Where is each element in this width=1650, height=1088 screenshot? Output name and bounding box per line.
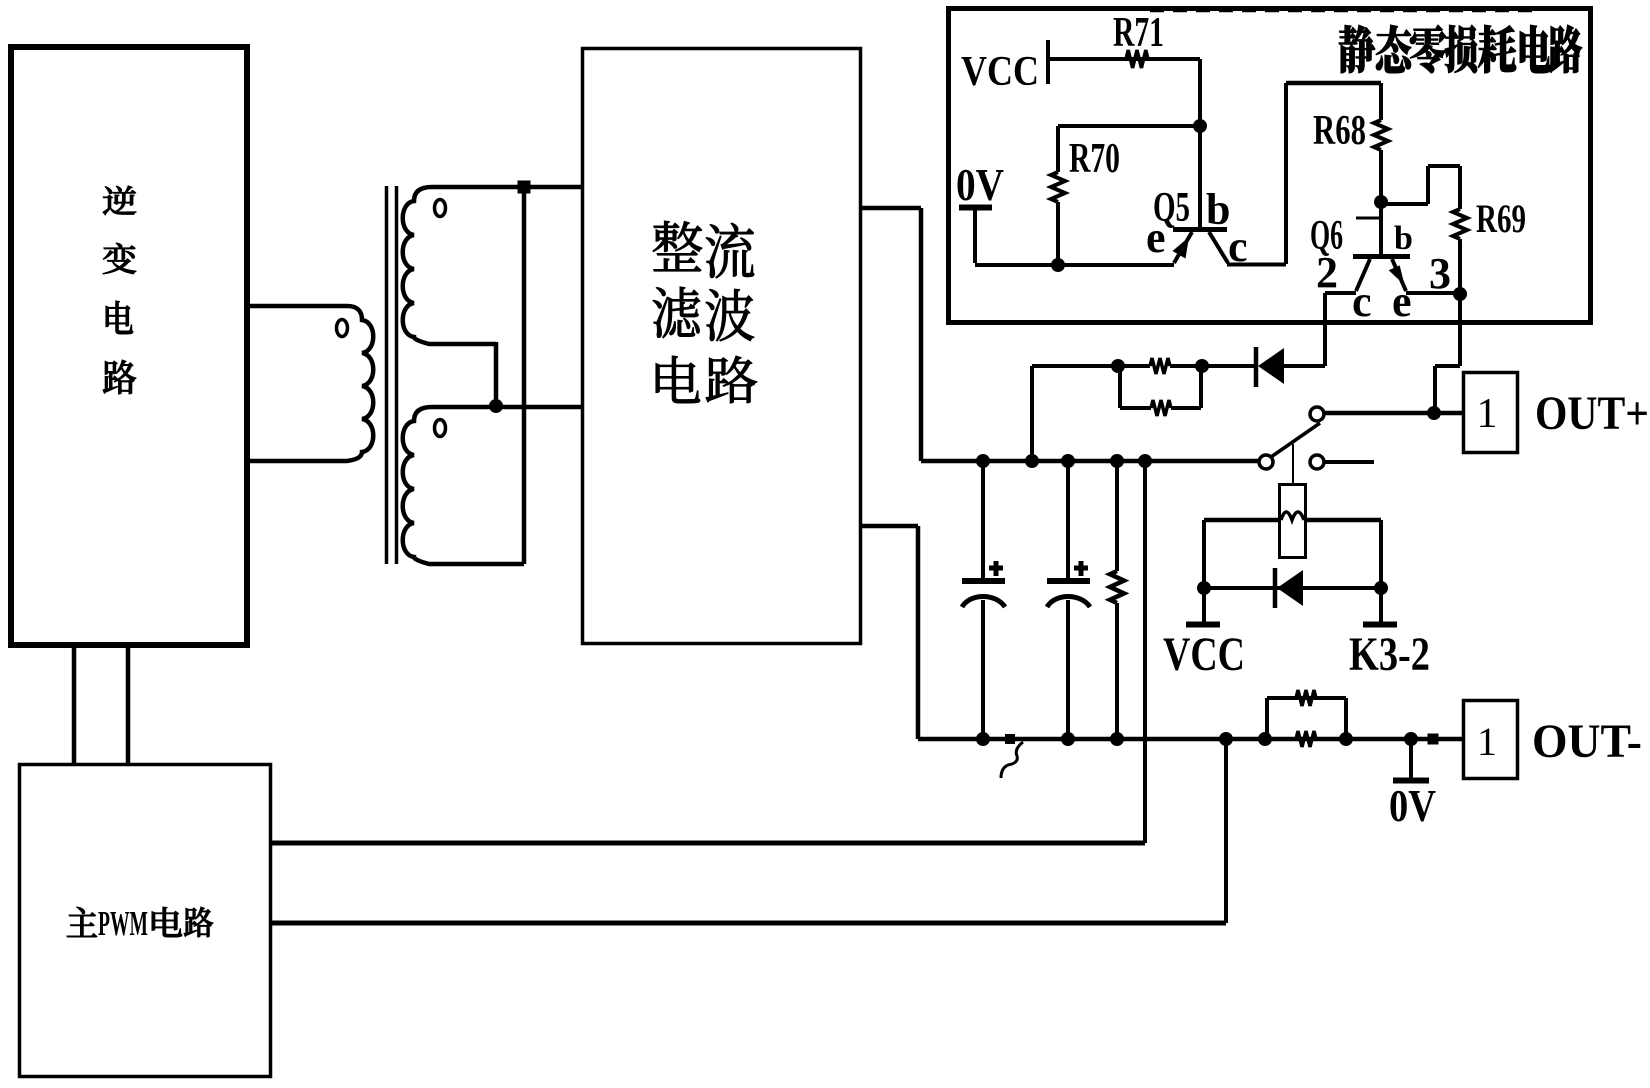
- wire: NC stub: [1325, 460, 1374, 464]
- label OUT+: [1535, 387, 1649, 440]
- relay switch: blade: [1271, 423, 1320, 457]
- svg-text:e: e: [1392, 277, 1412, 326]
- wire: PWM feedback line: [272, 841, 1145, 846]
- secondary bottom polarity dot: [435, 420, 446, 437]
- resistor R69: [1453, 166, 1526, 294]
- node: cap1 top: [976, 454, 990, 468]
- svg-text:3: 3: [1429, 249, 1451, 298]
- svg-text:b: b: [1394, 220, 1413, 257]
- wire: OUT+ rail: [921, 459, 1259, 464]
- svg-text:K3-2: K3-2: [1349, 628, 1430, 681]
- svg-text:1: 1: [1477, 719, 1497, 764]
- capacitor C1 (electrolytic): [962, 461, 1005, 739]
- svg-text:0V: 0V: [1389, 781, 1436, 831]
- resistor R71: [1113, 10, 1164, 68]
- transformer secondary winding (bottom): [403, 407, 581, 564]
- node: junction on secondary top lead: [518, 181, 531, 194]
- node: pin-3 node (emitter/R69): [1453, 287, 1467, 301]
- wire: coil right lead: [1307, 520, 1381, 624]
- label OUT-: [1532, 715, 1642, 768]
- wire: inverter to PWM drive 1: [72, 648, 77, 763]
- wire: base node jog to R69: [1381, 166, 1460, 204]
- transformer secondary winding (top): [403, 187, 581, 344]
- node: shunt R left: [1258, 732, 1272, 746]
- svg-text:1: 1: [1477, 391, 1498, 437]
- resistor (parallel pair, upper): [1118, 358, 1202, 374]
- wire: rectifier bottom output: [862, 526, 918, 739]
- terminal K3-2: [1349, 625, 1430, 682]
- wire: snubber branch horizontal: [1032, 366, 1118, 461]
- wire: OUT+ feed: [1325, 411, 1462, 416]
- node: clamp diode left: [1197, 581, 1211, 595]
- block: static zero-loss circuit box (静态零损耗电路): [949, 9, 1591, 323]
- transformer T1 core: [387, 186, 397, 564]
- primary polarity dot: [337, 320, 348, 337]
- clamp diode (cathode left): [1275, 568, 1303, 608]
- wire: voltage sense down to PWM feedback: [1143, 461, 1147, 843]
- svg-text:VCC: VCC: [961, 49, 1039, 95]
- svg-text:OUT-: OUT-: [1532, 715, 1642, 768]
- svg-text:PWM: PWM: [98, 904, 148, 943]
- wire: PWM return down: [1224, 739, 1228, 923]
- svg-text:VCC: VCC: [1163, 628, 1245, 681]
- transistor Q6 (PNP): [1310, 201, 1451, 326]
- svg-text:b: b: [1206, 185, 1230, 234]
- wire: PWM return line: [272, 921, 1226, 926]
- node: cap1 bottom: [976, 732, 990, 746]
- block: rectifier-filter circuit (整流滤波电路): [583, 49, 861, 644]
- node: clamp diode right: [1374, 581, 1388, 595]
- resistor R70: [1051, 126, 1120, 265]
- diode D (cathode left): [1256, 347, 1284, 387]
- secondary top polarity dot: [435, 200, 446, 217]
- wire: to diode: [1202, 364, 1254, 368]
- title: 静态零损耗电路: [1339, 25, 1582, 73]
- svg-text:R70: R70: [1069, 136, 1120, 182]
- wire: base node left to R70 top: [1058, 124, 1200, 128]
- node: OUT+ junction: [1427, 406, 1441, 420]
- current shunt squiggle: [1001, 734, 1023, 778]
- node: shunt R right: [1339, 732, 1353, 746]
- node: parallel resistor right: [1195, 359, 1209, 373]
- svg-text:OUT+: OUT+: [1535, 387, 1649, 440]
- node: bleeder top: [1110, 454, 1124, 468]
- wire: secondary top lower lead to center tap: [494, 342, 499, 406]
- wire: OUT- rail: [918, 737, 1462, 742]
- relay coil K3 box: [1280, 485, 1306, 558]
- scan speckle dashes under top border: [1150, 10, 1540, 13]
- terminal box OUT+ (1): [1464, 373, 1518, 453]
- node: PWM return tap: [1219, 732, 1233, 746]
- node: Q5 base node: [1193, 119, 1207, 133]
- transistor Q5 (PNP): [1146, 126, 1248, 271]
- wire: Q6 collector (pin 2) down/out of box: [1325, 293, 1356, 366]
- block: inverter circuit (逆变电路): [11, 47, 247, 645]
- node: cap2 top: [1061, 454, 1075, 468]
- svg-text:e: e: [1146, 213, 1166, 262]
- node: cap2 bottom: [1061, 732, 1075, 746]
- wire: inverter to PWM drive 2: [126, 648, 131, 763]
- node: R70 bottom junction: [1051, 258, 1065, 272]
- wire: down from R71 to base node: [1198, 59, 1202, 126]
- transformer primary winding: [250, 306, 373, 461]
- node: square joint before OUT-: [1428, 734, 1439, 745]
- relay switch: NC contact: [1310, 455, 1324, 469]
- resistor R68: [1313, 83, 1388, 201]
- wire: secondary bottom end up to top node: [522, 187, 527, 564]
- ground terminal 0V (output): [1389, 739, 1436, 831]
- wire: VCC to R71 to corner: [1048, 57, 1200, 61]
- shunt resistor (parallel loop): [1267, 690, 1346, 739]
- relay mechanical link: [1292, 444, 1294, 483]
- wire: 0V rail to Q5 emitter: [975, 263, 1174, 267]
- wire: coil left lead: [1204, 520, 1279, 624]
- node: Q6 base node: [1374, 195, 1388, 209]
- wire: rectifier top output: [862, 208, 921, 461]
- wire: Q5 collector run: [1227, 83, 1381, 265]
- shunt resistor (inline): [1296, 731, 1316, 747]
- svg-text:c: c: [1352, 277, 1372, 326]
- svg-text:R71: R71: [1113, 10, 1164, 56]
- node: 0V tap: [1404, 732, 1418, 746]
- svg-text:R68: R68: [1313, 108, 1366, 154]
- wire: Q6 emitter to node 3: [1406, 291, 1460, 295]
- terminal VCC (relay): [1163, 625, 1245, 682]
- wire: pin-3 down to OUT+ node: [1435, 294, 1460, 411]
- node: center-tap junction: [489, 399, 503, 413]
- wire: diode to Q6 collector corner: [1284, 364, 1325, 368]
- resistor (parallel pair, lower): [1120, 366, 1201, 416]
- power terminal VCC (top box): [961, 40, 1048, 95]
- relay coil winding arcs: [1281, 512, 1304, 520]
- ground terminal 0V (top box): [956, 159, 1004, 263]
- block: main PWM circuit (主PWM电路): [20, 765, 271, 1077]
- relay switch: common contact: [1259, 455, 1273, 469]
- node: rail junction (snubber): [1025, 454, 1039, 468]
- capacitor C2 (electrolytic): [1047, 461, 1090, 739]
- bleeder resistor: [1110, 461, 1124, 739]
- svg-text:R69: R69: [1476, 196, 1526, 241]
- node: parallel resistor left: [1111, 359, 1125, 373]
- node: bleeder bottom: [1110, 732, 1124, 746]
- terminal box OUT- (1): [1464, 701, 1518, 779]
- relay switch: NO contact: [1310, 407, 1324, 421]
- wire: clamp diode rail: [1204, 586, 1381, 590]
- svg-text:2: 2: [1316, 248, 1338, 297]
- svg-text:0V: 0V: [956, 159, 1004, 210]
- node: sense tap: [1138, 454, 1152, 468]
